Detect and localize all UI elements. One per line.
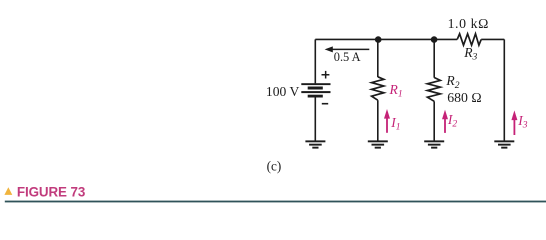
label (c) sub-figure tag [267,159,282,174]
svg-text:I1: I1 [390,115,400,133]
wire from node A down to resistor R1 [377,39,379,77]
current arrow I3 [511,110,517,135]
label I1 [390,115,400,133]
current arrow I2 [442,110,448,133]
ground under battery [305,140,325,148]
node junction dot B [431,36,438,43]
horizontal rule under caption [5,201,546,203]
svg-text:R3: R3 [463,45,477,63]
label R1 [389,82,403,100]
resistor R1 zigzag [372,77,384,100]
wire from node B down to resistor R2 [433,39,435,77]
svg-text:100 V: 100 V [266,84,300,99]
ground at right branch [494,140,514,148]
figure caption triangle marker [4,187,12,195]
figure caption text FIGURE 73 [17,185,85,200]
label 680 Ohm value of R2 [447,90,481,105]
label 0.5 A [334,50,361,64]
svg-text:FIGURE 73: FIGURE 73 [17,185,85,200]
current arrow I1 [384,109,390,133]
wire top horizontal left segment [315,38,457,40]
svg-text:1.0 kΩ: 1.0 kΩ [448,16,489,31]
battery minus sign [322,103,328,105]
svg-text:0.5 A: 0.5 A [334,50,361,64]
resistor R3 zigzag [457,34,481,45]
wire top horizontal right segment [481,38,504,40]
ground under R2 [424,140,444,148]
svg-text:I2: I2 [447,112,458,130]
label 1.0 kOhm value of R3 [448,16,489,31]
svg-text:R2: R2 [445,73,459,91]
node junction dot A [375,36,382,43]
svg-text:I3: I3 [517,113,528,131]
wire from resistor R1 to ground [377,100,379,141]
label I3 [517,113,528,131]
ground under R1 [368,140,388,148]
svg-text:R1: R1 [389,82,403,100]
label I2 [447,112,458,130]
wire right vertical from top wire to ground [503,39,505,141]
wire from resistor R2 to ground [433,101,435,141]
svg-text:(c): (c) [267,159,282,174]
resistor R2 zigzag [427,78,440,102]
battery VS 100 V plates [301,83,330,97]
label R3 [463,45,477,63]
battery plus sign [322,71,330,79]
label 100 V [266,84,300,99]
wire from battery negative to ground [314,98,316,142]
current arrow 0.5 A pointing left [325,46,370,52]
wire left vertical from top wire to battery positive plate [314,39,316,83]
svg-text:680 Ω: 680 Ω [447,90,481,105]
label R2 [445,73,459,91]
